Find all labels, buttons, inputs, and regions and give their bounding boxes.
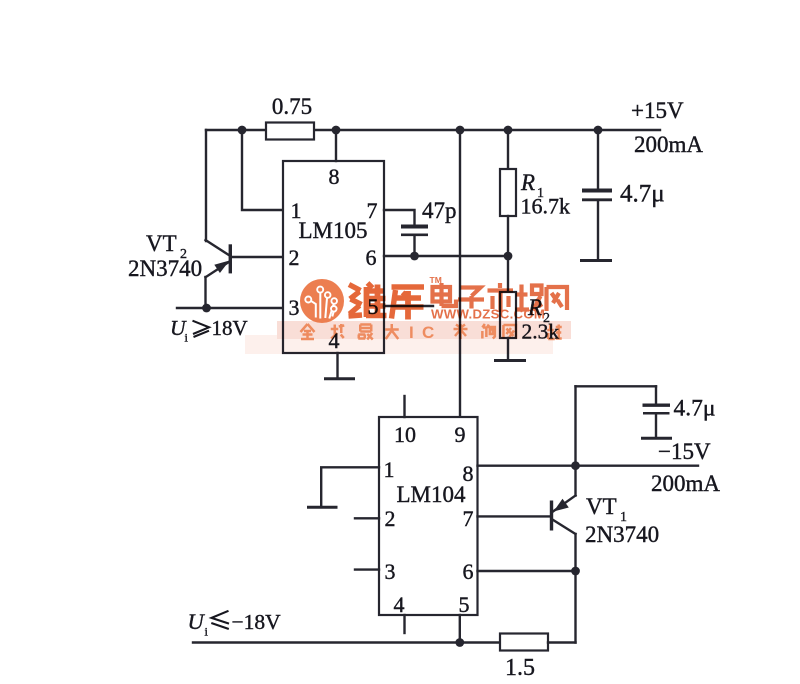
label 0.75 — [272, 94, 312, 119]
watermark logo circle — [300, 279, 344, 323]
node: input junction dot — [202, 304, 211, 313]
wire: bottom rail Ui<=-18V — [193, 641, 500, 643]
svg-text:2N3740: 2N3740 — [585, 522, 659, 547]
wire: pin7 to 47p cap — [384, 210, 415, 225]
node: pin5 rail dot — [455, 638, 464, 647]
svg-text:10: 10 — [394, 422, 416, 447]
label 47p — [422, 198, 457, 223]
transistor Q VT1 2N3740 — [552, 386, 576, 642]
label 4.7u top — [620, 181, 665, 208]
pin 2 label (LM104) — [385, 506, 396, 531]
watermark bottom char da — [385, 324, 399, 339]
svg-text:4.7μ: 4.7μ — [620, 181, 665, 208]
svg-text:47p: 47p — [422, 198, 457, 223]
wire: rail right of 1.5 up to VT1 collector — [548, 641, 576, 643]
label LM104 — [397, 482, 467, 507]
svg-text:C: C — [422, 323, 434, 342]
watermark pink band main — [277, 321, 571, 339]
pin 1 label (LM104) — [384, 457, 395, 482]
wire: pin6 line — [384, 255, 508, 257]
wire: pin1 branch from rail — [242, 130, 284, 210]
pin 5 label (LM104) — [459, 592, 470, 617]
wire: long vertical rail to LM104 pin9 — [459, 130, 461, 418]
node: pin6 dot — [571, 567, 580, 576]
pin 3 label — [289, 295, 300, 320]
label 2N3740 (VT1) — [585, 522, 659, 547]
watermark char zi — [458, 288, 484, 309]
pin 9 label — [455, 422, 466, 447]
label Ui<=-18V — [188, 609, 282, 639]
node: 47p junction dot — [410, 252, 419, 261]
svg-text:1.5: 1.5 — [505, 655, 535, 681]
svg-text:LM105: LM105 — [299, 218, 368, 243]
svg-text:200mA: 200mA — [651, 471, 720, 496]
label Ui>=18V — [170, 316, 248, 345]
watermark bottom I C — [409, 323, 434, 342]
svg-text:4.7μ: 4.7μ — [674, 396, 716, 422]
watermark bottom char qiu — [331, 324, 345, 339]
capacitor 47p — [401, 227, 428, 257]
label +15V — [631, 98, 684, 123]
pin 4 label — [329, 328, 340, 353]
svg-text:1: 1 — [291, 198, 302, 223]
watermark char dian — [433, 283, 457, 306]
svg-text:1: 1 — [384, 457, 395, 482]
wire: -15V rail from pin8 — [478, 465, 699, 467]
wire: input line Ui>=18V to pin3 — [177, 307, 284, 309]
wire: pin10 stub — [403, 396, 405, 417]
node: rail dot A — [238, 126, 247, 135]
op-amp U2 LM104 box — [379, 417, 478, 615]
label 2.3k — [522, 320, 560, 344]
watermark bottom char zhan — [547, 325, 562, 340]
label -15V — [658, 439, 711, 464]
node: rail dot C (long vertical) — [456, 126, 465, 135]
capacitor 4.7u (top) — [582, 130, 612, 260]
watermark bottom char wang (small) — [503, 325, 516, 339]
svg-text:8: 8 — [329, 164, 340, 189]
resistor 1.5 — [500, 634, 548, 651]
wire: LM105 pin4 down — [336, 353, 338, 378]
svg-text:16.7k: 16.7k — [521, 194, 571, 219]
ground (LM105 pin4) — [324, 377, 355, 380]
pin 6 label — [366, 245, 377, 270]
svg-text:VT: VT — [586, 494, 617, 519]
svg-text:9: 9 — [455, 422, 466, 447]
svg-text:200mA: 200mA — [634, 132, 703, 157]
transistor Q VT2 2N3740 — [206, 240, 231, 308]
node: -15V rail dot — [571, 461, 580, 470]
wire: pin8 to rail — [335, 130, 337, 161]
watermark bottom char gou — [482, 324, 495, 339]
label 200mA top — [634, 132, 703, 157]
svg-text:R: R — [520, 170, 535, 195]
pin 6 label (LM104) — [463, 559, 474, 584]
svg-text:4: 4 — [394, 592, 405, 617]
svg-text:3: 3 — [289, 295, 300, 320]
watermark — [245, 275, 571, 354]
op-amp U1 LM105 box — [283, 161, 384, 353]
label 2N3740 (VT2) — [128, 256, 202, 281]
pin 8 label — [329, 164, 340, 189]
watermark char shi — [488, 283, 514, 312]
wire: pin7 to VT1 base — [478, 515, 552, 517]
wire: pin3 stub — [355, 568, 379, 570]
resistor R1 16.7k — [500, 130, 516, 256]
pin 3 label (LM104) — [385, 559, 396, 584]
pin 7 label — [367, 198, 378, 223]
ground (top cap) — [580, 259, 612, 262]
watermark char ku — [392, 287, 425, 320]
pin 8 label (LM104) — [463, 461, 474, 486]
ground (LM104 pin1) — [307, 506, 338, 509]
pin 5 label — [368, 294, 379, 319]
wire: +15V top rail — [206, 129, 660, 131]
watermark www.dzsc.com — [431, 307, 545, 322]
pin 10 label — [394, 422, 416, 447]
watermark char wang (big) — [547, 287, 568, 311]
label 16.7k — [521, 194, 571, 219]
wire: pin4 stub (LM104) — [403, 615, 405, 633]
label LM105 — [299, 218, 368, 243]
wire: cap branch horizontal — [576, 385, 657, 387]
ground (bottom cap) — [641, 437, 672, 440]
wire: pin5 to bottom rail — [459, 615, 461, 643]
wire: VT2 base to pin2 — [230, 256, 284, 258]
label R1 — [520, 170, 544, 201]
node: rail dot B (pin8) — [332, 126, 341, 135]
wire: pin6 stub — [478, 570, 576, 572]
watermark char wei — [349, 283, 387, 317]
wire: VT2 collector vertical to rail — [205, 130, 207, 241]
capacitor 4.7u (bottom) — [643, 386, 671, 437]
watermark bottom char cai — [454, 324, 468, 339]
label R2 — [527, 295, 550, 326]
svg-text:WWW.DZSC.COM: WWW.DZSC.COM — [431, 307, 545, 322]
resistor R2 2.3k — [500, 256, 516, 360]
node: rail dot D (R1) — [504, 126, 513, 135]
svg-text:I: I — [409, 323, 414, 342]
svg-text:−18V: −18V — [232, 610, 282, 634]
label VT1 — [586, 494, 627, 525]
svg-text:2N3740: 2N3740 — [128, 256, 202, 281]
svg-text:18V: 18V — [212, 316, 248, 340]
svg-text:5: 5 — [459, 592, 470, 617]
watermark pink band faint wide — [245, 335, 553, 354]
ground (R2) — [494, 359, 526, 362]
svg-text:+15V: +15V — [631, 98, 684, 123]
pin 4 label (LM104) — [394, 592, 405, 617]
svg-text:2: 2 — [385, 506, 396, 531]
node: R1-R2 junction dot — [504, 252, 513, 261]
pin 1 label — [291, 198, 302, 223]
svg-text:6: 6 — [366, 245, 377, 270]
node: rail dot E (cap) — [594, 126, 603, 135]
wire: pin2 stub — [355, 517, 379, 519]
svg-text:7: 7 — [463, 506, 474, 531]
resistor 0.75 — [266, 123, 314, 140]
svg-text:0.75: 0.75 — [272, 94, 312, 119]
svg-text:VT: VT — [146, 231, 177, 256]
svg-text:−15V: −15V — [658, 439, 711, 464]
svg-text:2: 2 — [289, 245, 300, 270]
label 1.5 — [505, 655, 535, 681]
svg-text:3: 3 — [385, 559, 396, 584]
pin 2 label — [289, 245, 300, 270]
label 200mA bottom — [651, 471, 720, 496]
watermark TM — [430, 275, 442, 285]
watermark bottom char quan — [301, 324, 315, 339]
label VT2 — [146, 231, 187, 262]
svg-text:7: 7 — [367, 198, 378, 223]
svg-text:U: U — [188, 609, 206, 634]
svg-text:6: 6 — [463, 559, 474, 584]
wire: LM105 pin5 stub — [384, 305, 433, 307]
wire: pin1 to ground — [321, 467, 379, 505]
svg-text:8: 8 — [463, 461, 474, 486]
label 4.7u bottom — [674, 396, 716, 422]
watermark bottom char zui — [358, 325, 373, 340]
pin 7 label (LM104) — [463, 506, 474, 531]
svg-text:LM104: LM104 — [397, 482, 467, 507]
watermark char chang — [515, 285, 542, 312]
